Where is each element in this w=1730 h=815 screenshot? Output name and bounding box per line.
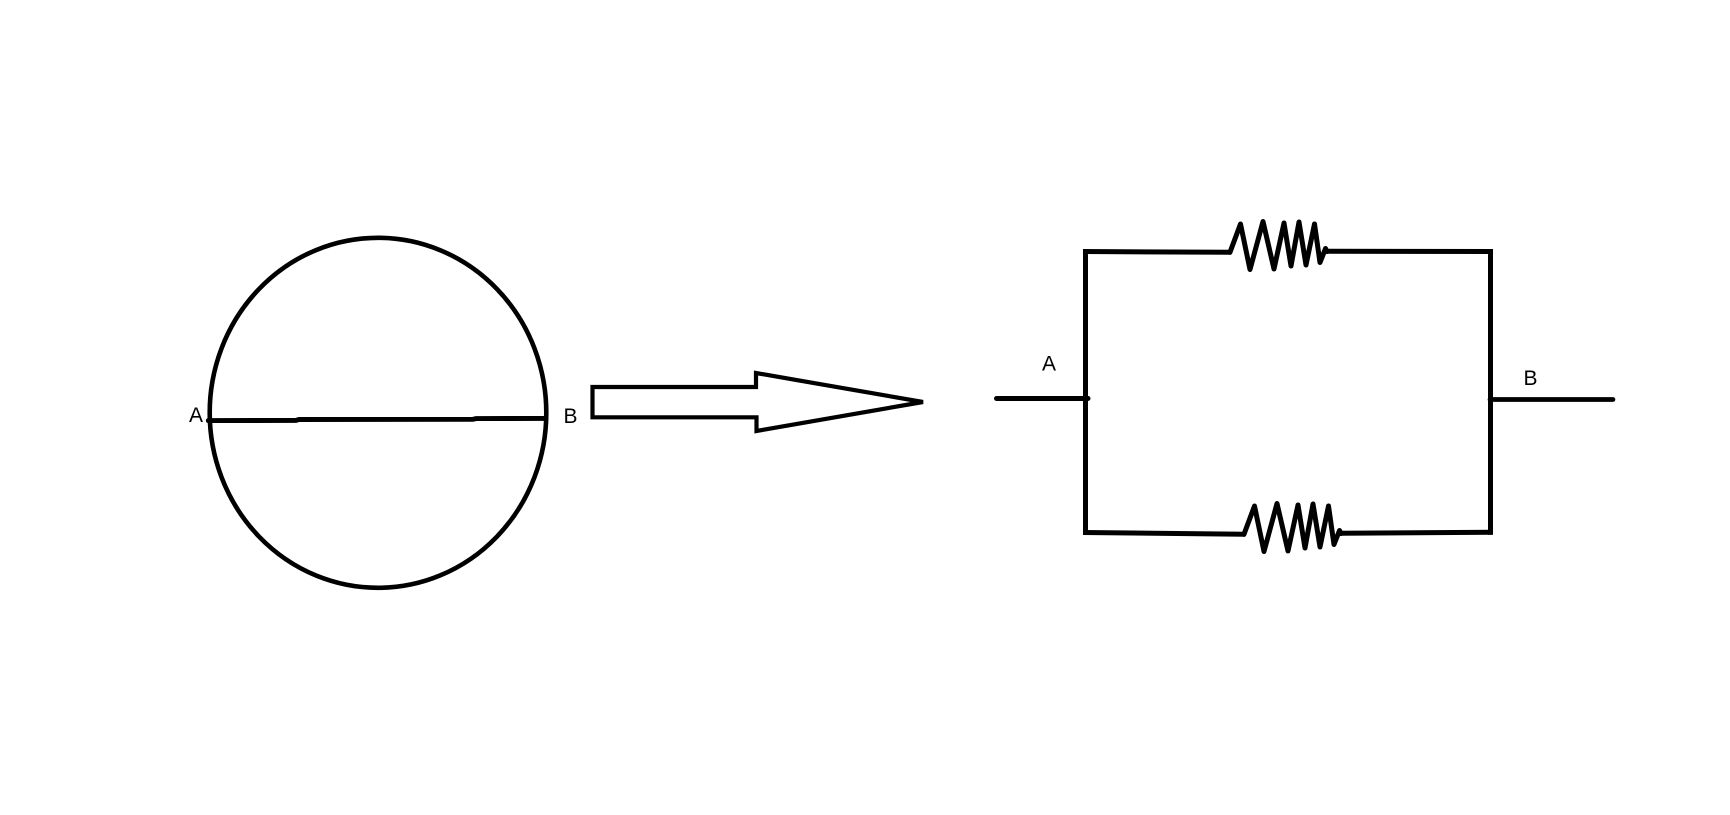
wire bottom branch, left segment bbox=[1083, 533, 1245, 535]
svg-text:A: A bbox=[1042, 353, 1056, 376]
wire lead into node A (right circuit) bbox=[997, 396, 1089, 401]
resistor R2 (bottom branch) bbox=[1244, 504, 1341, 552]
svg-text:B: B bbox=[1524, 367, 1538, 390]
wire chord from A to B through the ring bbox=[208, 418, 546, 420]
wire left vertical branch bbox=[1083, 249, 1088, 535]
wire right vertical branch bbox=[1488, 249, 1493, 535]
wire lead out of node B (right circuit) bbox=[1490, 397, 1613, 402]
wire top branch, right segment bbox=[1326, 249, 1493, 254]
svg-text:B: B bbox=[564, 405, 578, 428]
wire bottom branch, right segment bbox=[1340, 532, 1493, 533]
resistor R1 (top branch) bbox=[1230, 222, 1327, 270]
wire top branch, left segment bbox=[1083, 249, 1231, 255]
svg-text:A: A bbox=[189, 404, 203, 427]
wire ring (circular conductor loop) bbox=[210, 238, 547, 588]
equivalence arrow bbox=[593, 373, 924, 431]
